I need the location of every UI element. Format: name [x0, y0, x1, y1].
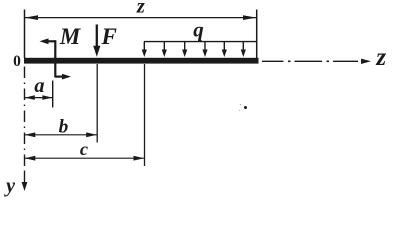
extension line right of a — [52, 81, 54, 108]
svg-text:M: M — [59, 24, 81, 49]
svg-text:F: F — [101, 24, 117, 49]
extension line below q start (for dimension c) — [144, 64, 146, 166]
stray dot artifact — [244, 106, 247, 109]
dimension z (top overall dimension line) — [25, 17, 256, 19]
svg-text:q: q — [193, 17, 203, 41]
svg-text:c: c — [80, 139, 88, 159]
load arrow 1 — [143, 42, 145, 50]
svg-text:z: z — [136, 0, 145, 18]
svg-text:z: z — [375, 44, 386, 71]
extension line (right end of z dimension / end of q) — [256, 10, 258, 59]
load arrow 6 — [242, 42, 244, 50]
moment M (couple symbol) — [45, 40, 55, 42]
load arrow 5 — [223, 42, 225, 50]
svg-text:a: a — [34, 75, 44, 97]
svg-text:0: 0 — [13, 53, 21, 70]
load arrow 2 — [163, 42, 165, 50]
force F (downward arrow) — [96, 25, 98, 49]
svg-text:b: b — [59, 117, 69, 138]
dimension c — [25, 157, 144, 159]
load arrow 3 — [184, 42, 186, 50]
axis y (left vertical line: solid extension above, dash-dot below, arrow down) — [24, 10, 26, 59]
dimension b — [25, 134, 97, 136]
axis z (dash-dot centerline to the right with arrow) — [262, 60, 284, 62]
distributed load q (top line) — [144, 41, 257, 43]
beam (thick horizontal bar) — [24, 58, 259, 64]
load arrow 4 — [204, 42, 206, 50]
extension line below F (for dimension b) — [96, 64, 98, 143]
dimension a — [25, 97, 52, 99]
